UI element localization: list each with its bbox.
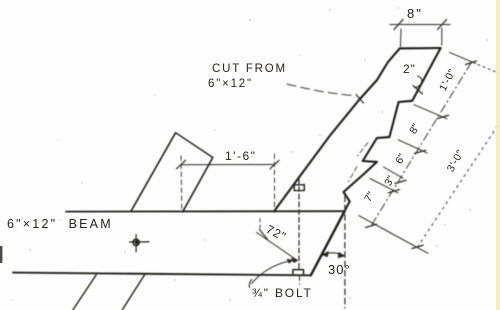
- extension line from cut edge top long: [359, 216, 428, 254]
- dim 8in line: [390, 24, 450, 26]
- dim 8in left extension: [400, 29, 403, 47]
- extension line step G: [384, 167, 404, 178]
- sloped member top end edge: [400, 47, 441, 50]
- label 3ft-0 rotated: [445, 148, 467, 174]
- label CUT FROM: [212, 63, 287, 75]
- dim 1ft6 left extension dashed: [180, 156, 183, 211]
- label 1ft-0 rotated: [437, 67, 459, 93]
- bolt upper washer plate on member edge: [294, 184, 304, 190]
- chain dimension line along member: [371, 63, 471, 226]
- bolt symbol horizontal crosshair: [130, 241, 150, 243]
- label 6 rotated: [393, 152, 408, 166]
- dim 1ft6 right extension dashed: [274, 154, 276, 211]
- scan artifact right yellow strip: [496, 0, 500, 310]
- bolt centerline below beam: [299, 277, 301, 285]
- bolt leader start tick: [249, 280, 252, 288]
- label 3/4 bolt: [252, 286, 313, 300]
- 30 deg arc left arrowhead: [322, 251, 329, 256]
- sloped member stepped right edge: [344, 48, 441, 211]
- dim 72 arrowhead: [292, 258, 298, 262]
- vertical reference dashed line through cut edge top: [344, 196, 346, 308]
- dim 2in tick on edge: [413, 86, 423, 95]
- scan artifact left edge: [0, 246, 2, 263]
- chain tick T3: [395, 180, 406, 183]
- dim 8in left tick: [394, 20, 403, 30]
- dim 2in leader curl: [415, 76, 422, 88]
- outer 3ft dim tick: [412, 245, 423, 248]
- chain tick T0: [466, 61, 477, 65]
- label 7 rotated: [362, 190, 377, 204]
- diagonal brace right edge below beam: [122, 275, 144, 310]
- extension line step E: [398, 140, 427, 153]
- dim 72 line: [257, 232, 298, 260]
- sloped member left edge: [274, 48, 400, 211]
- extension from top corner dotted to edge: [478, 65, 500, 74]
- dim 8in right extension: [441, 28, 443, 45]
- faint dashed tooth hidden lines: [358, 143, 369, 157]
- label 72 rotated: [264, 222, 289, 244]
- diagonal brace top cut edge: [176, 133, 213, 158]
- bolt lower washer plate on beam bottom: [293, 270, 304, 275]
- bolt leader arrowhead: [287, 259, 293, 263]
- extension line step I: [370, 179, 398, 193]
- beam 6x12 top edge: [66, 210, 345, 212]
- extension line step B: [414, 105, 447, 119]
- label 1ft-6: [225, 149, 256, 163]
- sloped member 30 deg cut edge: [311, 211, 345, 275]
- dim 72 tick: [260, 230, 268, 240]
- diagonal brace right edge: [183, 158, 213, 212]
- label 6x12: [208, 78, 253, 90]
- label 3 rotated: [382, 174, 397, 188]
- bolt label leader arc: [252, 261, 292, 284]
- chain tick T4: [389, 190, 400, 193]
- chain tick T5: [366, 224, 377, 227]
- chain tick T2: [415, 150, 426, 153]
- cut-from leader dashed arc: [287, 84, 354, 96]
- 30 deg angle arc: [323, 253, 344, 256]
- diagonal brace left edge below beam: [73, 275, 96, 310]
- bolt centerline dashed vertical: [298, 179, 300, 271]
- dim 8in right tick: [438, 20, 447, 30]
- cut-from leader end tick: [356, 95, 364, 104]
- label 30 deg: [328, 262, 351, 277]
- label 2 inch: [403, 62, 416, 76]
- dim 1ft6 line: [181, 164, 275, 166]
- outer 3ft chain dotted line: [418, 122, 500, 247]
- beam 6x12 bottom edge: [13, 273, 311, 276]
- 30 deg arc right arrowhead: [338, 252, 345, 258]
- label 8 inch: [407, 6, 447, 21]
- small dashes above 72 tick: [259, 219, 261, 232]
- bolt symbol circle on beam: [133, 239, 139, 245]
- chain tick T1: [438, 115, 449, 118]
- label 8 rotated: [407, 122, 422, 136]
- dim 1ft6 left tick: [177, 160, 186, 169]
- label beam: [7, 217, 113, 231]
- diagonal brace left edge: [131, 133, 175, 211]
- extension line from member top corner: [450, 52, 476, 63]
- bolt symbol vertical crosshair: [135, 235, 137, 252]
- dim 1ft6 right tick: [270, 160, 279, 169]
